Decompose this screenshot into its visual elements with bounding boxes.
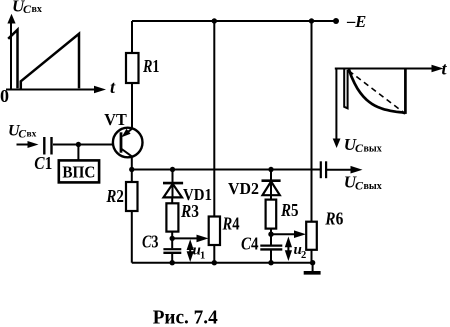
svg-text:R6: R6 xyxy=(324,209,343,229)
svg-text:ВПС: ВПС xyxy=(62,163,95,182)
svg-text:E: E xyxy=(354,12,366,31)
svg-text:VD1: VD1 xyxy=(183,185,212,204)
svg-text:Рис. 7.4: Рис. 7.4 xyxy=(153,307,218,327)
svg-text:1: 1 xyxy=(200,251,205,262)
svg-text:вых: вых xyxy=(364,181,382,192)
svg-text:R1: R1 xyxy=(142,56,159,76)
svg-text:R2: R2 xyxy=(106,186,124,206)
svg-text:вых: вых xyxy=(364,143,382,154)
svg-text:вх: вх xyxy=(27,130,37,140)
svg-text:VT: VT xyxy=(104,110,127,129)
svg-text:C3: C3 xyxy=(142,232,159,252)
svg-text:R5: R5 xyxy=(280,200,298,220)
svg-text:R3: R3 xyxy=(180,201,199,221)
svg-text:C4: C4 xyxy=(241,234,259,254)
svg-text:2: 2 xyxy=(301,250,306,261)
svg-text:C1: C1 xyxy=(34,153,52,173)
svg-text:R4: R4 xyxy=(222,213,240,233)
svg-text:0: 0 xyxy=(0,86,9,106)
svg-text:VD2: VD2 xyxy=(228,179,259,198)
svg-text:C: C xyxy=(18,128,26,140)
svg-text:вх: вх xyxy=(32,4,42,15)
